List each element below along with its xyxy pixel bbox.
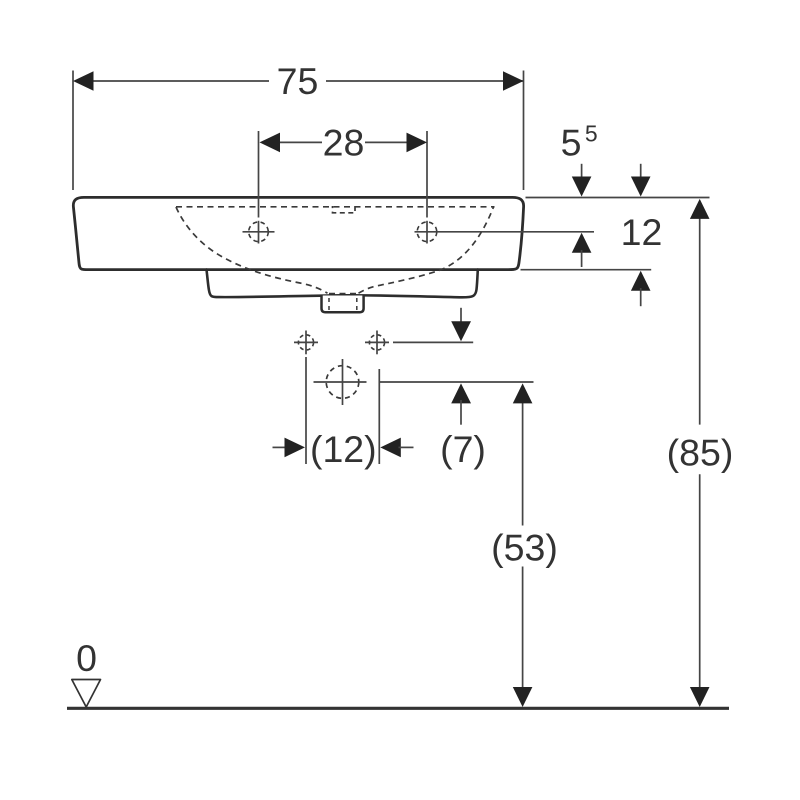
- svg-text:28: 28: [323, 121, 365, 163]
- drain inner dashed wall left: [328, 298, 330, 311]
- dimension 75: line left segment: [92, 80, 269, 82]
- body top reference line (to 85 dimension): [526, 197, 710, 199]
- dimension 28: right arrow: [407, 133, 428, 153]
- dimension (85): upper line segment with up arrow: [699, 217, 701, 425]
- svg-text:75: 75: [277, 60, 319, 102]
- drain box: [322, 296, 364, 313]
- dimension (12): left arrow stem: [273, 446, 288, 448]
- dimension 28: line left segment: [278, 141, 322, 143]
- dimension 12: up arrow stem: [640, 288, 642, 306]
- mounting hole right: dashed circle: [369, 335, 384, 350]
- dimension (7): down arrow stem: [460, 308, 462, 326]
- siphon hole: dashed circle: [326, 366, 359, 399]
- dimension (53): lower line segment: [522, 567, 524, 689]
- body bottom reference line (to 12 dimension): [521, 269, 652, 271]
- dimension (7): up arrow: [451, 383, 471, 403]
- dimension 12: down arrow stem: [640, 164, 642, 180]
- dimension (7): down arrow: [451, 321, 471, 341]
- dimension 28: left extension line: [258, 131, 260, 218]
- faucet hole left: crosshair vertical: [258, 221, 260, 244]
- siphon reference line (to 53 dimension): [380, 381, 534, 383]
- dimension (53): upper line segment with up arrow: [522, 402, 524, 526]
- svg-text:5: 5: [561, 122, 582, 164]
- dimension (85): up arrow: [690, 199, 710, 219]
- mounting hole right: crosshair horizontal: [365, 341, 389, 343]
- overflow slot dashed rectangle: [333, 206, 356, 213]
- dimension 28: right extension line: [426, 131, 428, 218]
- dimension 28: left arrow: [260, 133, 281, 153]
- siphon hole: crosshair vertical: [342, 359, 344, 405]
- svg-text:12: 12: [621, 211, 663, 253]
- dimension (12): right arrow: [380, 438, 401, 458]
- svg-text:5: 5: [585, 121, 598, 147]
- dimension (12): right extension line: [378, 369, 380, 464]
- siphon hole: crosshair horizontal: [314, 381, 367, 383]
- dimension 75: line right segment: [326, 80, 524, 82]
- mounting hole right: crosshair vertical: [376, 331, 378, 355]
- faucet hole right: dashed circle: [417, 222, 437, 242]
- basin bowl dashed bottom segment above drain: [329, 293, 358, 295]
- mounting hole left: crosshair horizontal: [294, 341, 318, 343]
- mounting holes reference line: [393, 341, 473, 343]
- faucet hole right: crosshair vertical: [426, 221, 428, 244]
- dimension (53): down arrow: [513, 687, 533, 707]
- dimension 75: left extension line: [72, 71, 74, 191]
- dimension 28: line right segment: [365, 141, 408, 143]
- mounting hole left: crosshair vertical: [305, 331, 307, 355]
- dimension 5.5: down arrow stem: [581, 164, 583, 180]
- dimension (12): left arrow: [285, 438, 306, 458]
- dimension (53): up arrow: [513, 383, 533, 403]
- svg-text:(7): (7): [440, 428, 486, 470]
- svg-text:0: 0: [76, 637, 97, 679]
- apron (lower skirt) outline: [207, 270, 478, 298]
- datum triangle: [72, 680, 101, 708]
- dimension (85): down arrow: [690, 687, 710, 707]
- dimension 5.5: down arrow: [572, 177, 592, 197]
- dimension 12: down arrow: [631, 177, 651, 197]
- mounting hole left: dashed circle: [298, 335, 313, 350]
- dimension (12): left extension line: [305, 357, 307, 464]
- dimension 75: left arrow: [73, 71, 94, 91]
- svg-text:(85): (85): [667, 431, 734, 473]
- basin bowl dashed curve left: [176, 207, 328, 293]
- drain inner dashed wall right: [356, 298, 358, 311]
- faucet hole left: dashed circle: [249, 222, 269, 242]
- dimension 12: up arrow: [631, 271, 651, 291]
- basin inner rim dashed line: [176, 206, 495, 208]
- svg-text:(53): (53): [491, 527, 558, 569]
- washbasin body outline: [73, 197, 523, 269]
- dimension (12): right arrow stem: [399, 446, 414, 448]
- dimension (7): up arrow stem: [460, 400, 462, 425]
- dimension 75: right extension line: [523, 71, 525, 191]
- basin bowl dashed curve right: [359, 207, 494, 293]
- faucet hole right: leader line to 5.5 dimension: [415, 231, 595, 233]
- faucet hole left: crosshair horizontal: [243, 231, 275, 233]
- dimension 5.5: up arrow: [572, 233, 592, 253]
- svg-text:(12): (12): [310, 428, 377, 470]
- dimension 5.5: up arrow stem: [581, 250, 583, 267]
- dimension (85): lower line segment: [699, 474, 701, 688]
- ground line: [67, 707, 729, 710]
- dimension 75: right arrow: [503, 71, 524, 91]
